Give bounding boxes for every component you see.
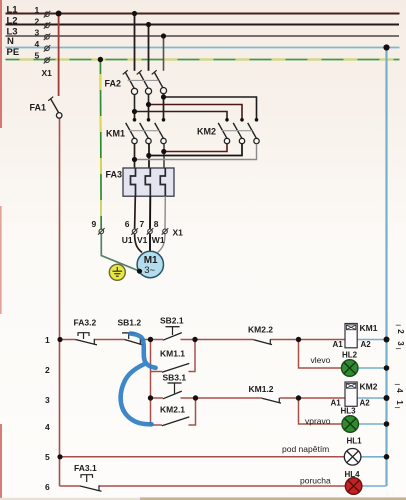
svg-text:6: 6: [45, 482, 50, 492]
svg-text:1: 1: [45, 335, 50, 345]
svg-text:8: 8: [154, 219, 159, 229]
svg-text:3: 3: [396, 341, 405, 346]
svg-text:KM1.2: KM1.2: [249, 384, 274, 394]
svg-text:HL2: HL2: [342, 350, 358, 359]
svg-text:FA1: FA1: [30, 103, 47, 113]
svg-text:V1: V1: [137, 235, 148, 245]
svg-text:U1: U1: [122, 235, 133, 245]
svg-text:W1: W1: [152, 235, 165, 245]
svg-text:FA3.2: FA3.2: [74, 318, 97, 328]
svg-text:X1: X1: [173, 227, 184, 237]
svg-text:KM1.1: KM1.1: [160, 348, 185, 358]
svg-text:pod napětím: pod napětím: [282, 444, 329, 454]
svg-text:porucha: porucha: [300, 476, 331, 486]
svg-text:5: 5: [45, 452, 50, 462]
svg-text:FA2: FA2: [105, 78, 122, 88]
svg-text:6: 6: [125, 219, 130, 229]
svg-text:SB1.2: SB1.2: [118, 318, 142, 328]
svg-text:L2: L2: [7, 16, 18, 27]
svg-text:A2: A2: [360, 399, 371, 408]
svg-text:HL4: HL4: [345, 470, 361, 479]
svg-text:A2: A2: [361, 340, 372, 349]
svg-text:2: 2: [396, 329, 405, 334]
svg-text:KM2: KM2: [197, 126, 216, 136]
svg-text:2: 2: [35, 17, 40, 27]
svg-text:9: 9: [92, 219, 97, 229]
svg-text:3: 3: [45, 395, 50, 405]
svg-text:5: 5: [35, 51, 40, 61]
svg-text:4: 4: [395, 388, 404, 393]
svg-text:L1: L1: [7, 5, 19, 16]
svg-text:vpravo: vpravo: [305, 416, 331, 426]
svg-text:FA3: FA3: [106, 169, 123, 179]
svg-text:4: 4: [45, 422, 50, 432]
svg-text:N: N: [7, 36, 14, 47]
svg-text:KM1: KM1: [106, 128, 125, 138]
svg-text:3: 3: [35, 28, 40, 38]
svg-text:HL3: HL3: [341, 406, 357, 415]
svg-text:4: 4: [35, 39, 40, 49]
svg-text:vlevo: vlevo: [311, 355, 331, 365]
svg-text:SB2.1: SB2.1: [160, 315, 184, 325]
svg-text:KM1: KM1: [360, 323, 378, 333]
svg-text:PE: PE: [7, 47, 20, 58]
svg-text:2: 2: [45, 365, 50, 375]
svg-text:X1: X1: [42, 68, 53, 78]
svg-text:FA3.1: FA3.1: [74, 463, 97, 473]
svg-text:3~: 3~: [144, 265, 155, 276]
svg-text:7: 7: [140, 219, 145, 229]
svg-text:HL1: HL1: [347, 436, 363, 445]
svg-text:SB3.1: SB3.1: [163, 373, 187, 383]
svg-text:1: 1: [395, 400, 404, 405]
svg-text:KM2.2: KM2.2: [248, 325, 273, 335]
svg-text:A1: A1: [333, 340, 344, 349]
svg-text:KM2: KM2: [360, 382, 378, 392]
svg-text:1: 1: [35, 5, 40, 15]
svg-text:KM2.1: KM2.1: [160, 404, 185, 414]
